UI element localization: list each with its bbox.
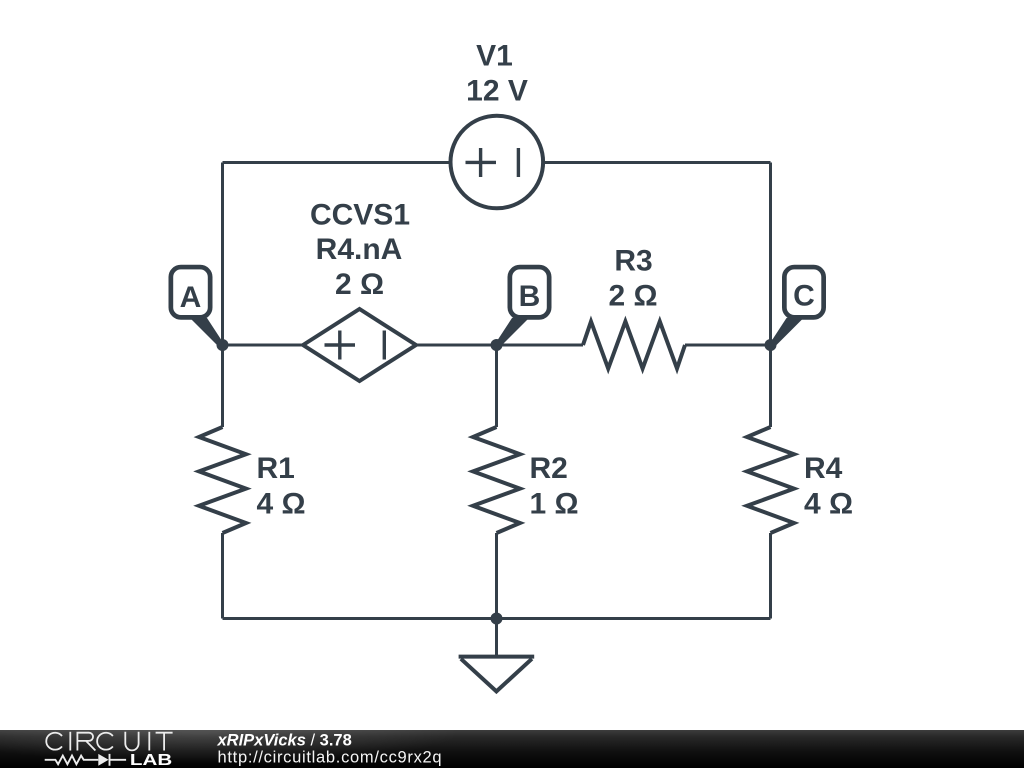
svg-text:http://circuitlab.com/cc9rx2q: http://circuitlab.com/cc9rx2q [218,749,443,767]
wire top right segment from V1 [543,161,771,164]
footer glow [0,703,460,763]
wire top-left vertical [221,163,224,346]
junction node B [491,339,503,351]
svg-text:A: A [180,281,202,314]
svg-text:2 Ω: 2 Ω [335,268,384,301]
wire bottom rail [223,617,771,620]
CircuitLab logo: resistor-diode glyph [45,754,126,766]
resistor R2 [473,427,520,533]
R3 labels [608,245,657,313]
resistor R4 [747,427,794,533]
svg-text:1 Ω: 1 Ω [530,488,579,521]
resistor R3 [583,322,685,369]
V1 labels [466,40,528,108]
wire CCVS1 to node B [416,344,497,347]
R1 labels [257,452,306,521]
svg-text:2 Ω: 2 Ω [608,280,657,313]
wire R4 to bottom rail [769,533,772,619]
wire node B down to R2 [495,345,498,427]
CircuitLab logo: CIRCUIT [46,732,172,751]
wire R3 to node C [685,344,771,347]
node C label [770,267,824,347]
node A label [171,267,224,347]
svg-text:xRIPxVicks / 3.78: xRIPxVicks / 3.78 [217,731,352,749]
svg-text:R1: R1 [257,452,295,485]
svg-text:V1: V1 [476,40,513,73]
R2 labels [530,452,579,521]
junction node A [217,339,229,351]
svg-text:12 V: 12 V [466,75,528,108]
node B label [495,267,549,347]
svg-text:R4.nA: R4.nA [316,233,403,266]
svg-text:4 Ω: 4 Ω [257,488,306,521]
wire R1 to bottom rail [221,533,224,619]
svg-text:CCVS1: CCVS1 [310,199,410,232]
junction node C [765,339,777,351]
svg-text:R2: R2 [530,452,568,485]
wire node C down to R4 [769,345,772,427]
footer bar [0,730,1024,768]
svg-text:R4: R4 [804,452,843,485]
voltage source V1 [451,116,544,209]
svg-text:LAB: LAB [130,752,172,768]
resistor R1 [199,427,246,533]
dependent source CCVS1 [303,309,416,381]
junction ground node [491,613,503,625]
wire node A to CCVS1 [223,344,304,347]
ground [459,619,535,692]
svg-text:4 Ω: 4 Ω [804,488,853,521]
R4 labels [804,452,853,521]
svg-text:R3: R3 [614,245,652,278]
wire top-right vertical to node C [769,163,772,346]
wire top left segment to V1 [223,161,451,164]
CCVS1 labels [310,199,410,302]
wire node A down to R1 [221,345,224,427]
wire R2 to bottom rail [495,533,498,619]
svg-text:B: B [519,280,541,313]
svg-text:C: C [793,280,815,313]
wire node B to R3 [497,344,584,347]
